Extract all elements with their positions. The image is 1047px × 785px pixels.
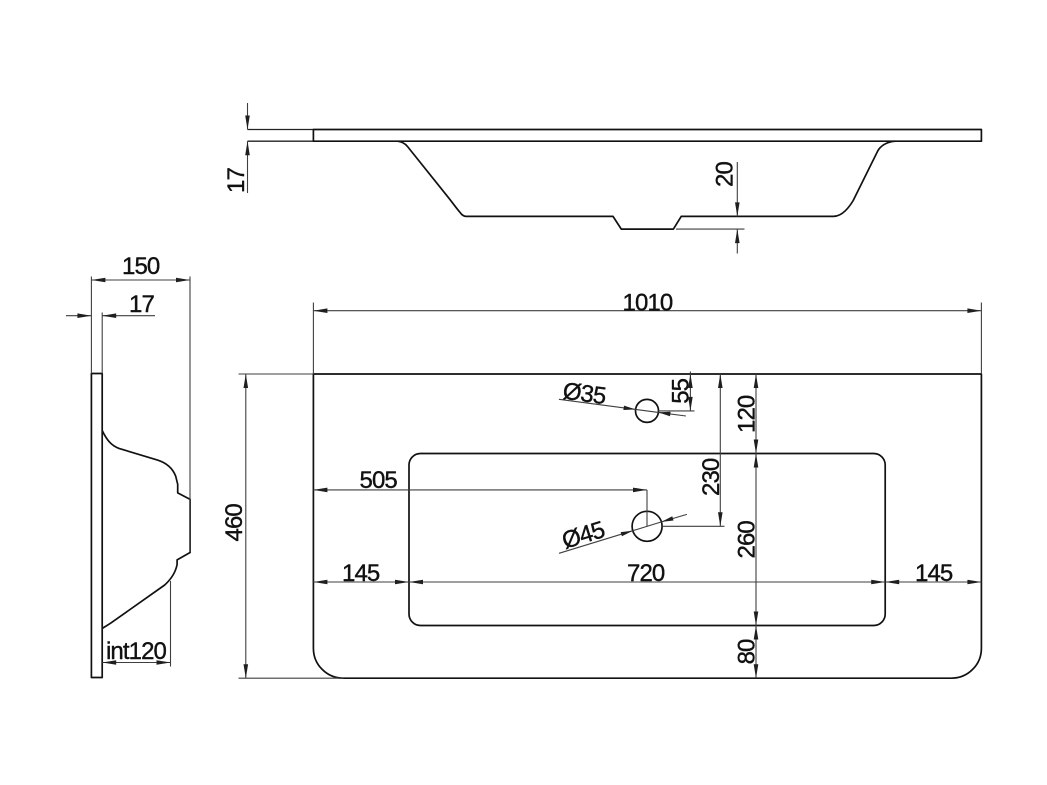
svg-text:int120: int120: [106, 638, 167, 665]
dim int120 (interior depth): [170, 581, 172, 667]
svg-text:120: 120: [734, 395, 761, 433]
svg-text:260: 260: [734, 521, 761, 559]
dim 17 (side view plate thickness): [101, 313, 103, 374]
dim 150 (side view overall depth): [90, 277, 92, 374]
svg-text:17: 17: [129, 291, 154, 318]
dim 260 (bowl depth): [755, 454, 757, 626]
svg-text:17: 17: [223, 168, 250, 193]
dim 720 (bowl width): [409, 581, 885, 583]
dim 17 (front view, plate thickness): [247, 103, 249, 130]
label D35 leader: [559, 399, 636, 409]
dim 460 (overall depth): [239, 373, 314, 375]
dim 20 (drain recess depth): [736, 162, 738, 216]
svg-text:145: 145: [915, 560, 953, 587]
svg-text:230: 230: [698, 458, 725, 496]
svg-text:Ø45: Ø45: [559, 516, 608, 554]
svg-text:1010: 1010: [623, 289, 673, 316]
svg-text:720: 720: [627, 560, 665, 587]
svg-text:145: 145: [342, 560, 380, 587]
wire: extension line for 20 dim: [676, 228, 745, 230]
dim 145 left: [313, 581, 409, 583]
dim 145 right: [885, 581, 981, 583]
plan view: countertop outline (rounded bottom corners): [313, 374, 981, 678]
hole D35 (faucet): [636, 399, 659, 422]
side view: bowl profile: [102, 431, 190, 629]
dim 120 (bowl from top edge): [755, 374, 757, 454]
svg-text:55: 55: [668, 378, 695, 403]
front view: bowl profile: [398, 141, 896, 229]
svg-text:505: 505: [360, 467, 398, 494]
dim 80 (bowl to bottom edge): [755, 626, 757, 679]
front view: basin top plate outline: [313, 130, 981, 142]
plan view: basin bowl opening: [409, 454, 885, 626]
hole D45 (drain): [632, 511, 662, 541]
dim 1010 (overall width): [312, 303, 314, 375]
svg-text:150: 150: [122, 253, 160, 280]
dim 55 (D35 from top edge): [689, 372, 691, 411]
wire: extension line bottom (17 dim, front view): [248, 140, 314, 142]
svg-text:80: 80: [734, 639, 761, 664]
label D45 leader: [559, 531, 633, 554]
dim 230 (drain hole from top edge): [719, 374, 721, 526]
svg-text:460: 460: [221, 504, 248, 542]
dim 505 (faucet hole from left): [313, 489, 647, 491]
wire: extension line top (17 dim, front view): [248, 129, 314, 131]
svg-text:Ø35: Ø35: [561, 378, 607, 410]
svg-text:20: 20: [712, 162, 739, 187]
side view: top plate (vertical): [91, 374, 102, 678]
